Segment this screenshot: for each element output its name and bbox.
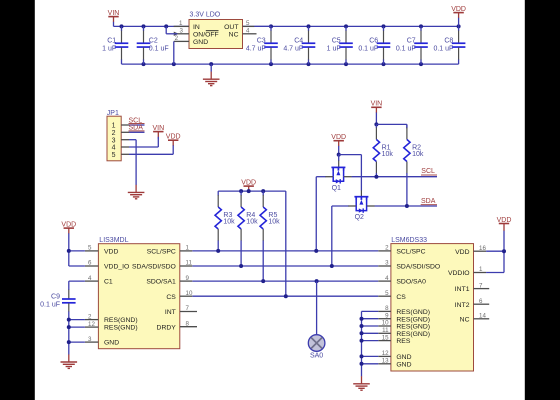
wire ground bottom rail xyxy=(122,63,459,65)
wire SDA high side (Q2 drain to label) xyxy=(375,205,437,207)
junction dots top rail xyxy=(120,24,461,28)
svg-text:0.1 uF: 0.1 uF xyxy=(396,46,416,53)
svg-text:RES(GND): RES(GND) xyxy=(104,317,138,324)
svg-text:GND: GND xyxy=(193,39,208,46)
svg-text:3: 3 xyxy=(385,260,389,267)
junction dots SDO row xyxy=(261,279,318,283)
svg-text:CS: CS xyxy=(166,294,176,301)
wire VDD to LIS pins 5,6 xyxy=(69,251,85,266)
junction dot R2 on SDA xyxy=(405,204,409,208)
svg-text:ON/OFF: ON/OFF xyxy=(193,31,219,38)
svg-text:4: 4 xyxy=(385,275,389,282)
wire LDO pin5 OUT to VDD rail xyxy=(254,25,271,27)
svg-text:1: 1 xyxy=(112,123,116,130)
svg-text:SA0: SA0 xyxy=(310,353,323,360)
junction dots on VDD rail xyxy=(239,189,265,193)
svg-text:INT2: INT2 xyxy=(455,302,470,309)
wire VIN split to R2 top xyxy=(376,124,407,128)
svg-text:CS: CS xyxy=(396,294,406,301)
junction dots SCL row xyxy=(216,249,318,253)
resistor R4 10k xyxy=(238,191,258,266)
junction dot LIS pin5 xyxy=(67,249,71,253)
capacitor C3 4.7uF xyxy=(246,26,278,64)
svg-text:NC: NC xyxy=(460,316,470,323)
junction dot CS row xyxy=(284,294,288,298)
solder jumper SA0 xyxy=(308,335,325,360)
LIS3MDL pin 12 RES(GND) xyxy=(85,321,99,328)
wire JP1 pin4 to VIN xyxy=(129,138,158,148)
svg-text:15: 15 xyxy=(382,334,389,341)
svg-text:C1: C1 xyxy=(107,38,116,45)
svg-text:INT: INT xyxy=(165,309,176,316)
capacitor C9 0.1uF xyxy=(40,290,75,312)
LIS3MDL pin 1 SCL/SPC xyxy=(180,245,193,252)
LSM6DS33 pin 13 GND xyxy=(378,358,391,365)
svg-text:0.1 uF: 0.1 uF xyxy=(149,46,169,53)
LSM6DS33 pin 7 INT1 xyxy=(474,282,490,289)
LIS3MDL pin 9 SDO/SA1 xyxy=(180,275,193,282)
wire node SDA chip row xyxy=(192,265,378,267)
LIS3MDL pin 6 VDD_IO xyxy=(85,260,99,267)
svg-text:C3: C3 xyxy=(257,38,266,45)
ground at LSM6DS33 xyxy=(353,376,370,390)
LSM6DS33 pin 16 VDD xyxy=(474,245,487,252)
svg-text:4: 4 xyxy=(88,275,92,282)
JP1 pin4 stub xyxy=(121,146,129,148)
svg-text:SDO/SA1: SDO/SA1 xyxy=(146,279,176,286)
svg-text:SDA/SDI/SDO: SDA/SDI/SDO xyxy=(132,264,176,271)
capacitor C1 1uF xyxy=(102,26,128,64)
power symbol VDD (top right) xyxy=(451,6,466,26)
svg-text:7: 7 xyxy=(479,282,483,289)
LSM6DS33 pin 11 RES(GND) xyxy=(378,327,391,334)
wire SDO row down to SA0 jumper xyxy=(316,281,318,335)
svg-text:9: 9 xyxy=(385,312,389,319)
svg-text:5: 5 xyxy=(385,290,389,297)
IC LSM6DS33 xyxy=(391,237,474,371)
wire VDD to LSM pin16 and VDDIO xyxy=(486,251,504,272)
wire VDD gate node to Q1 gate xyxy=(338,155,340,167)
svg-text:5: 5 xyxy=(112,152,116,159)
svg-text:C7: C7 xyxy=(407,38,416,45)
capacitor C8 0.1uF xyxy=(433,26,465,64)
capacitor C5 1uF xyxy=(327,26,353,64)
LSM6DS33 pin 3 SDA/SDI/SDO xyxy=(378,260,391,267)
svg-text:3: 3 xyxy=(180,28,184,35)
wire SDA low side Q2 source down to chips xyxy=(332,206,349,266)
svg-text:C5: C5 xyxy=(332,38,341,45)
LSM6DS33 pin 2 SCL/SPC xyxy=(378,245,391,252)
capacitor C6 0.1uF xyxy=(358,26,390,64)
svg-text:10k: 10k xyxy=(246,218,258,225)
svg-text:LIS3MDL: LIS3MDL xyxy=(99,237,128,244)
wire VDD gate node to Q2 gate xyxy=(339,155,362,197)
LSM6DS33 pin 4 SDO/SA0 xyxy=(378,275,391,282)
junction dot R1 on SCL xyxy=(374,175,378,179)
LDO pin 3 ON/OFF xyxy=(174,28,189,36)
svg-text:SCL/SPC: SCL/SPC xyxy=(396,249,425,256)
svg-text:C9: C9 xyxy=(51,293,60,300)
svg-text:VDD: VDD xyxy=(455,249,469,256)
junction dots LSM RES chain xyxy=(360,317,364,366)
LDO pin 5 OUT xyxy=(243,20,255,27)
svg-text:RES(GND): RES(GND) xyxy=(396,316,430,323)
wire JP1 pin5 to VDD xyxy=(129,145,173,154)
ground at LIS3MDL xyxy=(61,354,78,368)
svg-text:VDD_IO: VDD_IO xyxy=(104,264,129,271)
wire C9 down to ground with RES/GND taps xyxy=(69,311,85,354)
svg-text:16: 16 xyxy=(479,245,486,252)
svg-text:1: 1 xyxy=(479,266,483,273)
LIS3MDL pin 7 INT xyxy=(180,305,197,312)
svg-text:SDA/SDI/SDO: SDA/SDI/SDO xyxy=(396,264,440,271)
LIS3MDL pin 11 SDA/SDI/SDO xyxy=(180,260,193,267)
capacitor C2 0.1uF xyxy=(137,26,169,64)
svg-text:C8: C8 xyxy=(444,38,453,45)
transistor Q2 xyxy=(348,197,375,221)
wire node CS chip row xyxy=(192,295,378,297)
svg-text:SDO/SA0: SDO/SA0 xyxy=(396,279,426,286)
wire + net label SCL at JP1 pin1 xyxy=(129,117,145,125)
net label SDA xyxy=(421,198,437,205)
LSM6DS33 pin 5 CS xyxy=(378,290,391,297)
svg-text:10k: 10k xyxy=(382,151,394,158)
svg-text:RES(GND): RES(GND) xyxy=(396,324,430,331)
JP1 pin5 stub xyxy=(121,153,129,155)
LSM6DS33 pin 10 RES(GND) xyxy=(378,320,391,327)
wire + net label SDA at JP1 pin2 xyxy=(129,125,145,133)
LSM6DS33 pin 6 INT2 xyxy=(474,298,490,305)
svg-text:VDDIO: VDDIO xyxy=(448,270,470,277)
svg-text:7: 7 xyxy=(186,305,190,312)
svg-text:2: 2 xyxy=(385,245,389,252)
svg-text:6: 6 xyxy=(479,298,483,305)
svg-text:RES(GND): RES(GND) xyxy=(396,331,430,338)
svg-text:10: 10 xyxy=(382,320,389,327)
resistor R3 10k xyxy=(215,191,235,251)
svg-text:1 uF: 1 uF xyxy=(102,46,116,53)
LSM6DS33 pin 15 RES xyxy=(378,334,391,341)
svg-text:6: 6 xyxy=(88,260,92,267)
LIS3MDL pin 8 DRDY xyxy=(180,320,197,327)
svg-text:INT1: INT1 xyxy=(455,286,470,293)
resistor R5 10k xyxy=(260,191,280,281)
svg-text:SCL: SCL xyxy=(421,168,435,175)
svg-text:8: 8 xyxy=(186,320,190,327)
power symbol VIN at JP1 xyxy=(152,125,164,139)
svg-text:4: 4 xyxy=(246,28,250,35)
LIS3MDL pin 10 CS xyxy=(180,290,193,297)
LDO pin 2 GND xyxy=(174,35,189,42)
power symbol VDD at LSM6DS33 xyxy=(497,217,512,251)
LSM6DS33 pin 8 RES(GND) xyxy=(378,305,391,312)
power symbol VDD at JP1 xyxy=(166,134,181,146)
svg-text:5: 5 xyxy=(88,245,92,252)
junction dot at VIN split xyxy=(374,122,378,126)
svg-text:4: 4 xyxy=(112,145,116,152)
ground under LDO xyxy=(210,64,212,72)
svg-text:SDA: SDA xyxy=(421,198,436,205)
svg-text:10k: 10k xyxy=(268,218,280,225)
svg-text:10: 10 xyxy=(186,290,193,297)
wire node SDO chip row xyxy=(192,280,378,282)
svg-text:2: 2 xyxy=(88,313,92,320)
svg-text:OUT: OUT xyxy=(224,24,238,31)
junction dot VDD gate node xyxy=(337,153,341,157)
svg-text:GND: GND xyxy=(396,354,411,361)
svg-text:2: 2 xyxy=(175,35,179,42)
svg-text:0.1 uF: 0.1 uF xyxy=(358,46,378,53)
LSM6DS33 pin 12 GND xyxy=(378,350,391,357)
svg-text:C1: C1 xyxy=(104,279,113,286)
svg-text:GND: GND xyxy=(104,340,119,347)
svg-text:10k: 10k xyxy=(223,218,235,225)
wire SCL high side (Q1 drain to label) xyxy=(352,176,437,178)
JP1 pin1 stub xyxy=(121,124,129,126)
wire SCL low side Q1 source down to chips xyxy=(316,177,325,251)
svg-text:13: 13 xyxy=(382,358,389,365)
svg-text:5: 5 xyxy=(246,20,250,27)
LIS3MDL pin 3 GND xyxy=(85,336,99,343)
net label SCL xyxy=(421,168,437,175)
svg-text:12: 12 xyxy=(382,350,389,357)
svg-text:Q1: Q1 xyxy=(332,185,341,192)
svg-text:SCL/SPC: SCL/SPC xyxy=(147,249,176,256)
LDO pin 1 IN xyxy=(174,20,189,27)
LSM6DS33 pin 14 NC xyxy=(474,313,490,320)
power symbol VIN (top left) xyxy=(108,10,120,26)
JP1 pin3 stub xyxy=(121,139,129,141)
svg-text:VDD: VDD xyxy=(104,249,118,256)
wire VDD rail down to CS row xyxy=(285,191,287,296)
LIS3MDL pin 5 VDD xyxy=(85,245,99,252)
svg-text:LSM6DS33: LSM6DS33 xyxy=(391,237,427,244)
wire VIN rail to LDO pin3 xyxy=(166,26,177,33)
svg-text:C6: C6 xyxy=(369,38,378,45)
LDO pin 4 NC xyxy=(243,28,257,35)
svg-text:NC: NC xyxy=(229,31,239,38)
ground at JP1 xyxy=(128,185,145,199)
LSM6DS33 pin 9 RES(GND) xyxy=(378,312,391,319)
svg-text:9: 9 xyxy=(186,275,190,282)
svg-text:10k: 10k xyxy=(412,151,424,158)
power symbol VDD at LIS3MDL xyxy=(61,222,76,251)
wire LIS C1 pin to C9 xyxy=(69,281,85,290)
LIS3MDL pin 2 RES(GND) xyxy=(85,313,99,320)
JP1 pin2 stub xyxy=(121,131,129,133)
svg-text:1: 1 xyxy=(179,20,183,27)
wire LSM RES chain xyxy=(362,311,379,376)
resistor R1 10k xyxy=(373,124,393,176)
wire VIN top rail xyxy=(114,25,459,27)
svg-text:RES: RES xyxy=(396,338,410,345)
svg-text:0.1 uF: 0.1 uF xyxy=(433,46,453,53)
LSM6DS33 pin 1 VDDIO xyxy=(474,266,487,273)
capacitor C7 0.1uF xyxy=(396,26,428,64)
junction dots LIS ground chain xyxy=(67,318,71,345)
svg-text:GND: GND xyxy=(396,361,411,368)
svg-text:1: 1 xyxy=(186,245,190,252)
transistor Q1 xyxy=(325,167,352,191)
svg-text:1 uF: 1 uF xyxy=(327,46,341,53)
svg-text:11: 11 xyxy=(186,260,193,267)
resistor R2 10k xyxy=(404,124,424,206)
power symbol VIN above R1 R2 xyxy=(371,101,383,125)
junction dots SDA row xyxy=(239,264,334,268)
svg-text:8: 8 xyxy=(385,305,389,312)
svg-text:12: 12 xyxy=(88,321,95,328)
regulator U1 3.3V LDO xyxy=(189,12,243,49)
svg-text:C2: C2 xyxy=(149,38,158,45)
svg-text:IN: IN xyxy=(193,24,200,31)
svg-text:3.3V LDO: 3.3V LDO xyxy=(190,12,221,19)
wire node SCL chip row xyxy=(192,250,378,252)
power symbol VDD at level shifter gates xyxy=(331,134,346,155)
connector JP1 xyxy=(107,110,121,161)
svg-text:2: 2 xyxy=(112,130,116,137)
capacitor C4 4.7uF xyxy=(283,26,315,64)
svg-text:Q2: Q2 xyxy=(355,214,364,221)
svg-text:4.7 uF: 4.7 uF xyxy=(283,46,303,53)
svg-text:0.1 uF: 0.1 uF xyxy=(40,302,60,309)
svg-text:4.7 uF: 4.7 uF xyxy=(246,46,266,53)
LIS3MDL pin 4 C1 xyxy=(85,275,99,282)
svg-text:RES(GND): RES(GND) xyxy=(104,325,138,332)
wire LDO GND pin to bottom rail xyxy=(173,41,175,64)
svg-text:3: 3 xyxy=(112,137,116,144)
svg-text:RES(GND): RES(GND) xyxy=(396,309,430,316)
svg-text:C4: C4 xyxy=(294,38,303,45)
wire VDD rail above R3 R4 R5 xyxy=(218,190,286,192)
svg-text:DRDY: DRDY xyxy=(157,324,177,331)
IC LIS3MDL xyxy=(98,237,179,349)
svg-text:14: 14 xyxy=(479,313,486,320)
svg-text:3: 3 xyxy=(88,336,92,343)
svg-text:11: 11 xyxy=(382,327,389,334)
power symbol VDD above R3-R5 xyxy=(241,180,256,192)
junction dot LSM VDD xyxy=(502,249,506,253)
wire JP1 pin3 to ground xyxy=(129,140,136,185)
junction dots bottom rail xyxy=(142,62,424,66)
